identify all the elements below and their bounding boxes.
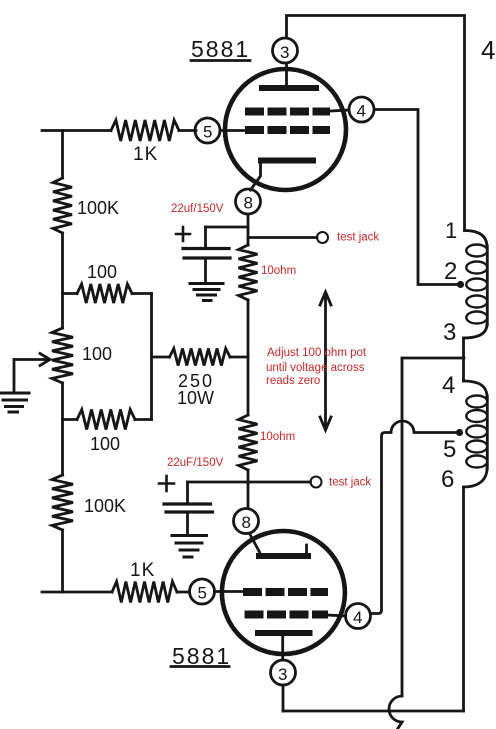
resistor R 1K (top)	[111, 120, 179, 141]
wire pin3 bottom down	[282, 685, 285, 711]
svg-text:4: 4	[481, 35, 495, 65]
wire joining verticals of 100 resistors	[150, 294, 153, 420]
wire 1K to pin5	[179, 129, 196, 132]
wire rail	[61, 233, 64, 328]
ground (top cap)	[190, 284, 223, 301]
pin 8 (bottom tube)	[234, 509, 259, 534]
wire mid rail lower	[247, 470, 250, 508]
transformer lower winding (terminals 4-5-6)	[464, 381, 488, 397]
resistor 100 (upper)	[63, 292, 78, 295]
transformer primary upper winding (terminals 1-2-3)	[465, 231, 488, 248]
svg-text:6: 6	[441, 466, 454, 493]
wire left rail upper	[61, 131, 64, 179]
wire mid rail	[247, 300, 250, 415]
svg-text:1K: 1K	[130, 560, 155, 581]
plus sign (bottom cap)	[159, 476, 174, 491]
wire pin4 top to tap 2	[375, 110, 460, 285]
grid row pin5 (bottom tube)	[243, 588, 328, 596]
svg-text:test jack: test jack	[329, 477, 371, 489]
svg-text:100: 100	[87, 262, 117, 282]
grid row pin4 (bottom tube)	[245, 611, 329, 619]
pot wiper arrow	[14, 358, 46, 361]
wire left rail lower	[61, 530, 64, 592]
svg-text:22uf/150V: 22uf/150V	[171, 203, 224, 215]
wire hop at bottom (B+ line over pin3 wire)	[389, 696, 402, 729]
plate bar (top tube) with stem from pin 3	[285, 63, 288, 85]
pin 5 (top tube)	[195, 118, 220, 143]
wire mid rail from pin8 top	[247, 215, 250, 246]
wire cap branch (bottom)	[188, 481, 249, 484]
svg-text:22uF/150V: 22uF/150V	[167, 457, 224, 469]
wire terminal 6 down	[462, 487, 465, 711]
svg-text:100: 100	[90, 434, 120, 454]
svg-text:5: 5	[203, 123, 212, 142]
resistor 100 (lower)	[63, 418, 78, 421]
ground (pot wiper)	[0, 393, 29, 412]
resistor 100K (lower)	[52, 475, 73, 530]
svg-text:10W: 10W	[177, 388, 214, 408]
grid row pin4 (top tube)	[245, 108, 330, 116]
resistor 10ohm (bottom)	[239, 415, 258, 470]
svg-text:1: 1	[445, 218, 457, 243]
svg-text:2: 2	[444, 258, 457, 285]
test jack (top)	[248, 236, 317, 239]
ground (bottom cap)	[172, 536, 207, 558]
svg-text:test jack: test jack	[337, 232, 379, 244]
svg-text:100: 100	[82, 344, 112, 364]
svg-text:reads zero: reads zero	[266, 375, 320, 387]
svg-text:5: 5	[198, 584, 207, 603]
pin 3 (top tube)	[273, 38, 298, 63]
plate bar (bottom tube) with stem to pin 3	[258, 630, 310, 636]
potentiometer 100	[52, 328, 73, 383]
svg-text:3: 3	[443, 319, 456, 346]
wire pin3 top to transformer terminal 1	[287, 16, 465, 231]
svg-text:Adjust 100 ohm pot: Adjust 100 ohm pot	[267, 347, 367, 359]
svg-text:10ohm: 10ohm	[260, 431, 295, 443]
svg-text:5881: 5881	[191, 36, 250, 62]
resistor 250 10W	[152, 356, 170, 359]
resistor 100K (upper)	[53, 178, 72, 233]
svg-text:8: 8	[242, 513, 251, 532]
pin 8 (top tube)	[236, 189, 261, 214]
pin 4 (bottom tube)	[346, 604, 371, 629]
svg-text:8: 8	[244, 194, 253, 213]
svg-text:5: 5	[443, 436, 456, 463]
tap 2 junction dot	[457, 281, 464, 288]
test jack (bottom)	[248, 481, 311, 484]
pin 3 (bottom tube)	[271, 660, 296, 685]
wire center junction to B+ line	[402, 357, 464, 360]
grid row pin5 (top tube)	[245, 126, 330, 134]
svg-text:4: 4	[442, 372, 455, 399]
wire cap branch (top)	[206, 226, 249, 229]
svg-text:1K: 1K	[133, 144, 158, 165]
svg-text:100K: 100K	[84, 496, 126, 516]
svg-text:10ohm: 10ohm	[261, 265, 296, 277]
cathode (top tube)	[261, 158, 313, 164]
plus sign (top cap)	[176, 227, 190, 241]
annotation arrow (double head)	[324, 296, 327, 426]
pin 5 (bottom tube)	[190, 579, 215, 604]
tap 5 junction dot	[456, 429, 463, 436]
wire bottom-left horizontal	[42, 591, 112, 594]
svg-text:3: 3	[280, 43, 289, 62]
wire rail	[61, 383, 64, 475]
pin 4 (top tube)	[349, 97, 374, 122]
svg-text:3: 3	[278, 665, 287, 684]
wire terminal 3 down to terminal 4	[462, 338, 465, 381]
tube U1 5881 (top) envelope	[225, 69, 346, 190]
resistor 1K (bottom)	[112, 582, 177, 603]
resistor 10ohm (top)	[239, 245, 258, 300]
svg-text:4: 4	[353, 608, 362, 627]
wire bottom horizontal to pin 3	[283, 710, 464, 713]
svg-text:100K: 100K	[77, 198, 119, 218]
wire tap 5 with hop to bottom pin 4	[371, 421, 460, 614]
svg-text:4: 4	[357, 102, 366, 121]
tube U2 5881 (bottom) envelope	[222, 531, 345, 654]
cathode (bottom tube)	[250, 534, 260, 553]
wire top-left horizontal	[42, 129, 111, 132]
svg-text:until voltage across: until voltage across	[266, 362, 365, 374]
